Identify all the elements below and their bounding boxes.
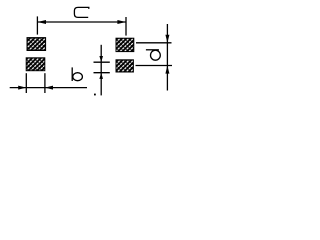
dimension b extension line left [25,73,27,93]
dimension d extension line bottom [136,65,173,67]
dimension c arrow right [117,20,126,24]
dimension e tick top [94,61,110,63]
dimension e arrow bottom [99,73,103,79]
dimension d line [166,24,168,91]
dimension e arrow top [99,56,103,62]
pad bottom-left [26,58,45,71]
dimension c arrow left [37,20,46,24]
dimension e tick bottom [94,72,110,74]
dimension c line [37,21,126,23]
dimension b extension line right [44,73,46,93]
dot [94,94,96,96]
label d [146,50,160,60]
dimension c extension line right [125,17,127,36]
dimension b arrow left [18,86,26,90]
dimension d arrow bottom [165,66,169,74]
pad top-left [27,38,46,51]
dimension c extension line left [36,16,38,34]
dimension b arrow right [45,86,53,90]
dimension e line (middle unlabeled) [100,45,102,96]
label b [72,67,82,81]
pad bottom-right [116,60,133,72]
label c [74,7,88,17]
dimension d arrow top [165,35,169,43]
pad top-right [116,38,134,51]
dimension d extension line top [136,42,172,44]
dimension b line [10,87,87,89]
